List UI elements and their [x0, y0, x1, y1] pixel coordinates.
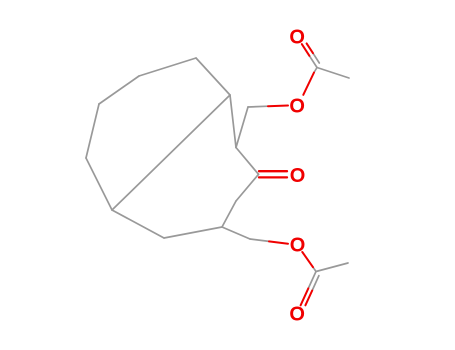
- ring bond V1-Ca: [230, 95, 236, 148]
- top ester C=O red half L2: [307, 43, 313, 53]
- bond CH2bottom-Obottom black half: [250, 239, 269, 241]
- ring bond Cb-V8: [222, 201, 236, 227]
- ring bond V2-V3: [139, 58, 196, 76]
- ketone C=O line lower: [259, 176, 287, 178]
- svg-text:O: O: [290, 165, 306, 187]
- bond V8-CH2bottom: [222, 227, 250, 239]
- ring bond Ca-Cket: [236, 148, 259, 175]
- bond Obottom-Cbottom red part: [302, 252, 313, 267]
- bottom ester C=O red half L1: [301, 288, 309, 305]
- black half of top ester C=O (C side) L2: [313, 53, 319, 63]
- ring bond V7-V8: [164, 227, 222, 238]
- transannular bond V1-V6: [112, 95, 230, 210]
- bond CH2top-Otop black half: [248, 105, 268, 108]
- ring bond V1-V2: [196, 58, 230, 95]
- svg-text:O: O: [289, 304, 305, 326]
- ring bond V6-V7: [112, 210, 164, 238]
- bond Otop-Ctop red part: [303, 73, 314, 95]
- black half of top ester C=O (C side) L1: [309, 56, 317, 68]
- black half of bottom ester C=O (C side) L1: [308, 272, 316, 289]
- bond Ca-CH2top: [236, 107, 248, 148]
- ketone C=O line upper: [259, 170, 287, 172]
- bond Ctop-methyl: [317, 68, 349, 79]
- svg-text:O: O: [289, 26, 305, 48]
- bond Cbottom-methyl: [316, 263, 348, 272]
- svg-text:O: O: [289, 95, 305, 117]
- black half of bottom ester C=O (C side) L2: [312, 276, 319, 291]
- top ester C=O red half L1: [302, 44, 310, 56]
- ring bond V5-V6: [86, 158, 112, 210]
- ring bond Cket-Cb: [236, 174, 259, 201]
- bond CH2top-Otop red half: [268, 105, 288, 108]
- bond CH2bottom-Obottom red half: [269, 241, 288, 243]
- ring bond V3-V4: [99, 76, 139, 104]
- ring bond V4-V5: [86, 104, 99, 158]
- black stub Obottom-Cbottom near C: [313, 267, 316, 271]
- black stub Otop-Ctop near C: [314, 68, 317, 73]
- svg-text:O: O: [290, 234, 306, 256]
- bottom ester C=O red half L2: [305, 291, 312, 306]
